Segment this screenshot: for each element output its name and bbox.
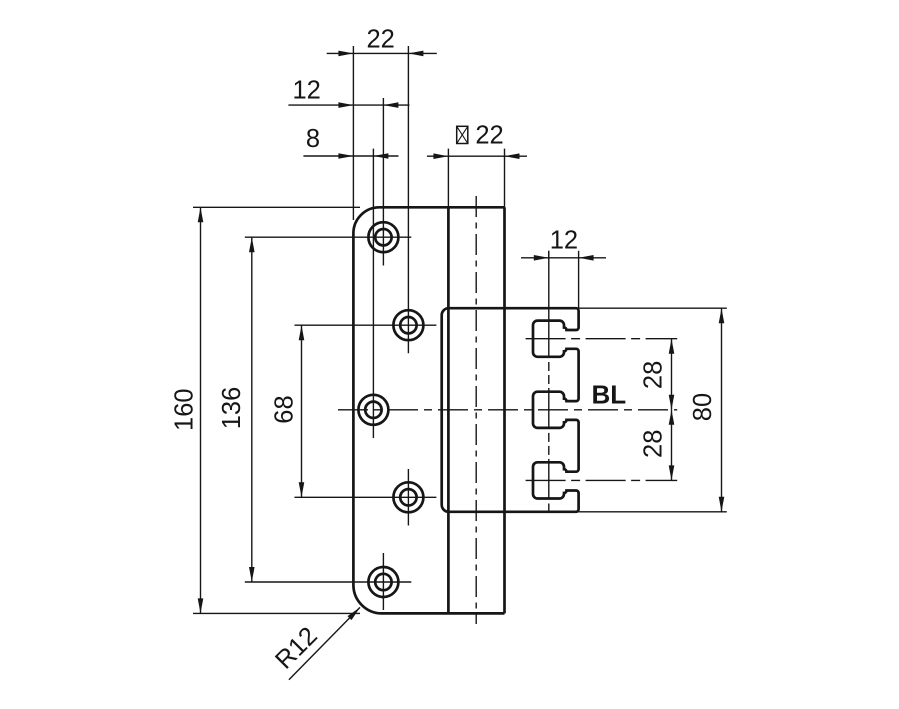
dimension 136 (hole pitch outer) <box>218 237 254 582</box>
dimension 12 (right, teeth) <box>521 227 606 308</box>
svg-text:136: 136 <box>218 387 246 430</box>
dimension ⌀ 22 (knuckle width) with missing-glyph box <box>427 122 527 208</box>
screw hole 1 (countersunk, two rings) <box>368 222 398 252</box>
knuckle right edge <box>503 207 506 613</box>
screw hole 5 (countersunk, two rings) <box>368 567 398 597</box>
svg-text:22: 22 <box>367 26 395 54</box>
screw hole 3 (countersunk, two rings) <box>358 395 388 425</box>
dimension 80 (frame leaf height) <box>579 308 727 512</box>
svg-text:R12: R12 <box>270 622 323 675</box>
dimension 160 (overall height) <box>171 207 361 613</box>
hole 4 center marks <box>295 469 437 526</box>
dimension 22 (top) <box>327 26 437 220</box>
dimension 28 (lower tooth pitch) <box>640 410 675 481</box>
svg-text:12: 12 <box>293 76 321 104</box>
hinge leaf plate (door leaf) outline with R12 rounded corners <box>353 207 504 613</box>
screw hole 4 (countersunk, two rings) <box>393 482 423 512</box>
lower tooth centerline (dash-dot) <box>526 479 678 481</box>
upper tooth centerline (dash-dot) <box>526 338 678 340</box>
dimension 12 (top) <box>288 76 409 108</box>
main horizontal centerline through hole 3 and middle tooth <box>338 409 677 411</box>
svg-text:28: 28 <box>640 361 668 389</box>
hole 3 center marks <box>372 149 374 438</box>
dimension 8 (top) <box>303 125 398 159</box>
frame leaf with three comb teeth (BL part) <box>442 308 579 512</box>
svg-text:8: 8 <box>306 125 320 153</box>
svg-text:28: 28 <box>640 430 668 458</box>
hole 1 center marks <box>245 98 411 266</box>
dimension 68 (hole pitch inner) <box>271 325 305 497</box>
svg-text:80: 80 <box>689 393 717 421</box>
hole 2 center marks <box>295 46 437 353</box>
teeth vertical centerline / extension of right 12 dim <box>548 251 550 513</box>
svg-text:12: 12 <box>550 227 578 255</box>
svg-text:68: 68 <box>271 395 299 423</box>
svg-text:BL: BL <box>591 379 626 409</box>
hole 5 center marks <box>245 553 411 610</box>
knuckle left edge <box>447 207 450 613</box>
leader R12 pointing to bottom-left corner radius <box>270 607 360 679</box>
knuckle vertical centerline (dash-dot) <box>475 196 477 624</box>
svg-text:22: 22 <box>475 122 503 150</box>
dimension 28 (upper tooth pitch) <box>640 339 675 410</box>
screw hole 2 (countersunk, two rings) <box>393 310 423 340</box>
label BL (bold) <box>591 379 626 409</box>
svg-text:160: 160 <box>171 388 199 431</box>
